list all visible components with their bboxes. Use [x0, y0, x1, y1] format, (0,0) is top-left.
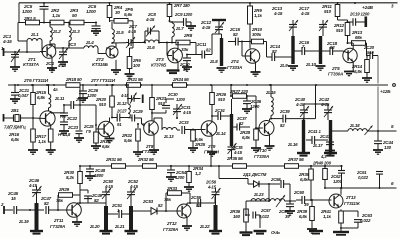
svg-text:4-15: 4-15 — [129, 184, 139, 189]
svg-text:2L23: 2L23 — [253, 192, 264, 197]
svg-text:2R40 200: 2R40 200 — [312, 161, 332, 166]
svg-text:ГТ330А: ГТ330А — [254, 154, 269, 159]
transformer 2L17 — [312, 120, 337, 156]
svg-text:2R35 56: 2R35 56 — [226, 156, 243, 161]
resistor 2R15 — [31, 84, 47, 108]
resistor 2R13 — [348, 30, 367, 56]
svg-text:910: 910 — [336, 28, 344, 33]
resistor 2R33 — [164, 186, 190, 211]
svg-text:4-15: 4-15 — [273, 11, 283, 16]
capacitor 2C18 — [318, 41, 343, 55]
svg-text:2В1: 2В1 — [10, 108, 19, 113]
svg-text:Г9: Г9 — [86, 129, 91, 134]
resistor 2R23 — [150, 85, 167, 121]
inductor 2L12 — [116, 84, 130, 118]
transformer 2L14 — [215, 84, 233, 146]
capacitor 2C50 4-15 — [102, 179, 114, 206]
svg-text:6,8к: 6,8к — [299, 214, 308, 219]
capacitor 2C56 4-15 — [205, 180, 221, 204]
svg-text:160: 160 — [233, 214, 241, 219]
svg-text:2L5: 2L5 — [115, 30, 124, 35]
svg-text:2С33: 2С33 — [178, 120, 189, 125]
resistor 2R20 — [95, 84, 114, 119]
svg-text:0,022: 0,022 — [259, 214, 270, 219]
resistor 2R2 — [50, 8, 64, 25]
node 1 input terminal — [1, 46, 12, 56]
svg-text:6,8к: 6,8к — [354, 69, 363, 74]
ground 2T9 emitter — [207, 135, 217, 156]
capacitor 2C7 4-15 — [126, 24, 137, 48]
svg-text:2R1 5: 2R1 5 — [23, 16, 36, 21]
svg-text:910: 910 — [324, 9, 332, 14]
inductor 2L1 — [27, 32, 43, 53]
resistor 2R31 — [105, 157, 126, 168]
capacitor 2C23 — [58, 122, 79, 137]
capacitor 2C61 — [356, 170, 383, 189]
svg-text:ГТ329А: ГТ329А — [50, 224, 65, 229]
wire 2T13 base — [311, 199, 332, 201]
capacitor 2C47 — [40, 196, 59, 214]
capacitor 2C36 — [242, 95, 262, 113]
ground 2T11 emitter — [72, 216, 82, 226]
wire to 2L18 — [332, 130, 348, 132]
transformer 2L8 — [209, 34, 223, 66]
ground 2T12 emitter — [182, 217, 192, 230]
capacitor 2C44 — [373, 131, 394, 154]
svg-text:4-15: 4-15 — [320, 102, 330, 107]
svg-text:2L3: 2L3 — [71, 29, 80, 34]
resistor 2R26 — [210, 85, 227, 116]
arrow 2L23 tuning — [276, 195, 285, 207]
svg-text:1200: 1200 — [250, 104, 260, 109]
svg-text:75к: 75к — [164, 197, 172, 202]
svg-text:30: 30 — [115, 10, 120, 15]
svg-text:2L8: 2L8 — [209, 59, 218, 64]
svg-text:910: 910 — [218, 97, 226, 102]
capacitor 2C29 — [128, 109, 145, 124]
resistor 2R35 — [226, 156, 247, 168]
resistor 2R6 — [125, 43, 142, 79]
resistor 2R37 — [285, 157, 305, 168]
svg-text:2R37 56: 2R37 56 — [287, 157, 304, 162]
svg-text:1,1к: 1,1к — [254, 13, 263, 18]
inductor 2L6 — [131, 40, 176, 50]
capacitor 2C10 and ground — [167, 55, 193, 74]
capacitor 2C54 — [166, 165, 187, 181]
svg-text:4-15: 4-15 — [207, 185, 217, 190]
svg-text:300к: 300к — [252, 32, 262, 37]
svg-text:2С23: 2С23 — [67, 125, 79, 130]
capacitor 2C28 trimmer — [120, 93, 144, 104]
wire input to 2T1 base — [12, 51, 40, 53]
capacitor 2C43 — [319, 130, 335, 159]
wire 2T11 collector — [77, 203, 88, 204]
wire 2R30 node — [79, 196, 81, 204]
resistor 2R24 — [172, 77, 189, 87]
wire 2T2 collector — [112, 42, 126, 47]
svg-text:100: 100 — [133, 63, 141, 68]
resistor 2R22 — [121, 123, 143, 156]
capacitor 2C31 4-15 — [173, 104, 192, 119]
arrow 2L18 tuning — [365, 126, 373, 136]
svg-text:2R33: 2R33 — [166, 186, 178, 191]
svg-text:4-15: 4-15 — [104, 184, 114, 189]
resistor 2R12 — [333, 20, 350, 44]
svg-text:2С34: 2С34 — [214, 108, 225, 113]
wire 2T6 base — [32, 108, 46, 130]
inductor 2L23 — [251, 192, 296, 202]
wire 2T10 collector — [270, 118, 305, 121]
svg-text:2L12: 2L12 — [116, 101, 127, 106]
wire output 5 — [367, 124, 396, 132]
resistor 2R36 — [229, 209, 253, 235]
ground top center — [212, 20, 226, 21]
ground 2T4 emitter — [251, 63, 261, 77]
resistor 2R11 — [321, 2, 340, 20]
svg-text:4,3: 4,3 — [320, 154, 327, 159]
svg-text:1200: 1200 — [176, 97, 186, 102]
svg-text:33к: 33к — [181, 47, 189, 52]
capacitor 2C15 — [228, 27, 250, 46]
svg-text:2С58: 2С58 — [270, 177, 281, 182]
transistor 2T11 GT329A — [50, 203, 81, 229]
svg-text:ГТ329А: ГТ329А — [163, 227, 178, 232]
inductor 2L15 — [265, 84, 276, 119]
ground 2T1 emitter — [47, 58, 57, 73]
svg-text:1,1к: 1,1к — [323, 214, 332, 219]
svg-text:2Т11: 2Т11 — [53, 218, 64, 223]
wire 2T7 collector — [109, 118, 111, 122]
svg-text:КТ370Б: КТ370Б — [151, 63, 167, 68]
capacitor 2C52 4-15 — [127, 179, 139, 206]
svg-text:82: 82 — [94, 198, 99, 203]
ground 2T2 emitter — [111, 60, 121, 74]
inductor 2L5 — [112, 22, 124, 43]
svg-text:+24В: +24В — [362, 5, 374, 11]
resistor 2R27 — [229, 85, 256, 98]
ground 2L8 — [217, 68, 227, 72]
wire +24V top bus — [19, 3, 398, 22]
svg-text:2Т6 ГТ311И: 2Т6 ГТ311И — [23, 78, 49, 83]
ground 2T8 emitter — [149, 134, 159, 154]
resistor 2R28 — [239, 127, 261, 152]
svg-text:0,022: 0,022 — [358, 175, 369, 180]
svg-text:2С19 1200: 2С19 1200 — [349, 12, 370, 17]
svg-text:8,2к: 8,2к — [66, 175, 75, 180]
svg-text:130: 130 — [384, 145, 392, 150]
svg-text:1200: 1200 — [22, 9, 32, 14]
capacitor 2C62 — [330, 165, 345, 189]
inductor 2L13 — [162, 128, 180, 140]
resistor 2R1 — [23, 16, 40, 25]
svg-text:4-15: 4-15 — [127, 29, 137, 34]
capacitor 2C35 4-15 — [228, 143, 244, 158]
svg-text:2С3: 2С3 — [67, 42, 76, 47]
resistor 2R7 — [167, 2, 190, 21]
ground bottom right — [333, 227, 349, 235]
svg-text:4-15: 4-15 — [233, 150, 243, 155]
svg-text:510: 510 — [367, 50, 374, 55]
transformer 2L9 — [279, 36, 298, 70]
svg-text:+12Б: +12Б — [380, 89, 391, 94]
capacitor 2C39 — [270, 109, 316, 128]
svg-text:1800: 1800 — [94, 173, 104, 178]
capacitor 2C22 — [51, 112, 78, 122]
resistor 2R16 — [8, 129, 38, 154]
capacitor 2C51 — [106, 203, 129, 218]
svg-text:2L7: 2L7 — [175, 26, 184, 31]
svg-text:0,047: 0,047 — [18, 93, 29, 98]
svg-text:2L22: 2L22 — [199, 224, 210, 229]
svg-text:2L6: 2L6 — [146, 45, 155, 50]
crystal 2B1 — [4, 108, 34, 122]
capacitor 2C5 — [22, 2, 49, 23]
resistor 2R40 — [312, 161, 332, 190]
svg-text:82: 82 — [233, 32, 238, 37]
transformer 2L16 — [287, 120, 310, 156]
ground 2T10 emitter — [265, 135, 275, 151]
wire detector feed — [218, 165, 254, 184]
wire 2T4 collector — [0, 0, 1, 1]
svg-text:2Т3: 2Т3 — [155, 57, 164, 62]
transistor 2T12 GT329A — [163, 204, 191, 232]
transformer 2L19 — [18, 203, 43, 234]
capacitor 2C41 — [306, 129, 328, 144]
capacitor 2C37 — [233, 116, 250, 131]
wire 2T8 collector — [154, 118, 162, 130]
svg-text:6,8к: 6,8к — [37, 95, 46, 100]
inductor 2L4 — [84, 40, 106, 54]
wire collector to 2L20 — [88, 203, 107, 211]
resistor 2R14 — [351, 55, 372, 83]
inductor 2L2 — [49, 22, 61, 47]
svg-text:2R21 56: 2R21 56 — [126, 77, 143, 82]
node 2 input terminal — [0, 202, 13, 214]
capacitor 2C27 — [112, 109, 128, 128]
resistor 2R21 — [126, 77, 143, 87]
svg-text:2С55: 2С55 — [190, 195, 202, 200]
svg-text:4-15: 4-15 — [28, 183, 38, 188]
diode 2D1 DKS7M — [254, 181, 281, 187]
label 2T7 — [90, 78, 116, 83]
wire to diode 2C53 — [130, 210, 151, 212]
svg-text:2С57: 2С57 — [260, 208, 271, 213]
resistor 2R8 — [172, 21, 196, 52]
svg-text:2L19: 2L19 — [18, 219, 29, 224]
ground bottom mid — [309, 228, 323, 234]
capacitor 2C40 4-15 — [294, 97, 309, 120]
svg-text:2С29: 2С29 — [132, 109, 143, 114]
capacitor 2C24 — [63, 85, 94, 142]
wire output 6 — [325, 181, 397, 195]
wire 2L22 top link — [197, 197, 215, 203]
svg-text:68к: 68к — [355, 35, 363, 40]
capacitor 2C49 — [80, 190, 103, 203]
inductor 2L3 — [68, 22, 80, 49]
inductor 2L7 — [171, 23, 184, 44]
svg-text:2С39: 2С39 — [279, 109, 290, 114]
capacitor 2C16 — [293, 40, 318, 55]
svg-text:4-15: 4-15 — [182, 110, 192, 115]
svg-text:2С22: 2С22 — [66, 116, 78, 121]
capacitor 2C26 — [78, 84, 99, 102]
wire 2T5 collector — [348, 43, 354, 49]
resistor 2R32 — [137, 157, 157, 168]
transistor 2T2 KT315B — [92, 46, 118, 67]
svg-text:2L14: 2L14 — [215, 131, 226, 136]
svg-text:НЧ: НЧ — [60, 114, 66, 119]
svg-text:ГТ311Ж: ГТ311Ж — [344, 201, 361, 206]
capacitor 2C34 — [212, 108, 232, 120]
capacitor 2C45 — [7, 191, 30, 214]
capacitor 2C42 4-15 — [318, 97, 333, 120]
svg-text:82: 82 — [272, 49, 277, 54]
svg-text:2L13: 2L13 — [163, 134, 174, 139]
transistor 2T9 GT311I — [185, 121, 220, 155]
resistor 2R19 — [91, 128, 110, 150]
capacitor 2C8 4-15 — [144, 12, 160, 44]
svg-text:2L16: 2L16 — [287, 142, 298, 147]
svg-text:2R7 180: 2R7 180 — [173, 3, 190, 8]
resistor 2R38 — [298, 165, 313, 201]
svg-text:2R29: 2R29 — [58, 187, 70, 192]
capacitor 2C48 — [85, 166, 106, 180]
label +24V — [354, 2, 394, 11]
svg-text:1,1к: 1,1к — [38, 139, 47, 144]
resistor 2R17 — [35, 126, 56, 154]
transformer 2L20 — [89, 206, 113, 234]
ground 2T5 emitter — [344, 62, 354, 76]
svg-text:2R24 56: 2R24 56 — [172, 77, 189, 82]
svg-text:2Т9: 2Т9 — [207, 144, 216, 149]
capacitor 2C59 — [278, 201, 295, 219]
svg-text:2L1: 2L1 — [30, 32, 39, 37]
resistor 2R4 — [107, 2, 122, 22]
resistor 2R18 — [65, 77, 82, 87]
transistor 2T4 GT333A — [227, 42, 260, 71]
svg-text:2R27 220: 2R27 220 — [229, 89, 249, 94]
wire input node — [29, 209, 44, 211]
capacitor 2C4 label — [45, 48, 84, 71]
svg-text:2Т5: 2Т5 — [331, 66, 340, 71]
svg-text:0,022: 0,022 — [360, 218, 371, 223]
svg-text:4-15: 4-15 — [300, 11, 310, 16]
svg-text:82: 82 — [44, 201, 49, 206]
capacitor 2C46 4-15 — [28, 178, 42, 203]
resistor 2R30 — [63, 166, 82, 196]
transistor 2T10 GT330A — [254, 96, 274, 159]
wire bus3 to bus2 — [210, 154, 212, 166]
transistor 2T7 GT311I row2 — [80, 105, 114, 137]
svg-text:2С43: 2С43 — [319, 134, 331, 139]
svg-text:15: 15 — [11, 196, 16, 201]
capacitor 2C14 — [267, 44, 294, 61]
svg-text:2С60: 2С60 — [293, 190, 305, 195]
capacitor 2C57 — [245, 208, 271, 234]
capacitor 2C63 — [341, 211, 373, 228]
resistor 2R5 — [110, 7, 134, 43]
svg-text:4а: 4а — [52, 87, 58, 92]
svg-text:2L2: 2L2 — [52, 29, 61, 34]
resistor 2R39 — [296, 200, 317, 233]
capacitor 2C3 4-15 — [57, 42, 76, 68]
transistor 2T1 KT337A — [23, 45, 56, 67]
svg-text:5,6к: 5,6к — [124, 138, 133, 143]
svg-text:2Д1 ДКС7М: 2Д1 ДКС7М — [242, 172, 267, 177]
wire 2T12 collector — [187, 202, 197, 205]
wire bus3 — [79, 165, 343, 167]
svg-text:2L18: 2L18 — [349, 123, 360, 128]
wire over 2L8 — [221, 34, 223, 38]
svg-text:4-15: 4-15 — [145, 17, 155, 22]
wire detector node — [246, 184, 270, 209]
svg-text:КТ337А: КТ337А — [23, 62, 40, 67]
diode 2C53 — [142, 199, 163, 215]
resistor 2R25 — [188, 129, 206, 153]
svg-text:1,1к: 1,1к — [52, 13, 61, 18]
svg-text:1200: 1200 — [86, 9, 96, 14]
capacitor 2C55 — [190, 195, 212, 208]
capacitor 2C17 4-15 — [298, 6, 328, 36]
svg-text:2L9: 2L9 — [279, 63, 288, 68]
capacitor 2C58b — [270, 177, 290, 201]
capacitor 2C11 — [186, 34, 212, 59]
capacitor 2C33 — [178, 120, 189, 134]
ground 2T7 emitter — [105, 136, 115, 143]
svg-text:2С9 1200: 2С9 1200 — [174, 12, 193, 17]
svg-text:6,8к: 6,8к — [300, 177, 309, 182]
svg-text:2R8: 2R8 — [183, 33, 193, 38]
wire stub — [0, 0, 1, 1]
transformer 2L10 — [305, 36, 326, 70]
svg-text:2L20: 2L20 — [89, 224, 100, 229]
svg-text:1200: 1200 — [175, 175, 185, 180]
svg-text:4-15: 4-15 — [201, 25, 211, 30]
capacitor 2C19 — [347, 12, 371, 28]
transistor 2T13 GT311Zh — [329, 194, 361, 208]
inductor 2L18 — [348, 123, 367, 131]
capacitor 2C21 — [10, 84, 30, 103]
transistor 2T5 GT330A — [328, 42, 357, 77]
svg-text:7,8(7,5)МГц: 7,8(7,5)МГц — [4, 125, 26, 130]
svg-text:24: 24 — [48, 66, 54, 71]
transistor 2T8 GT311I — [142, 121, 158, 154]
svg-text:6,8к: 6,8к — [102, 144, 110, 149]
svg-text:6,8к: 6,8к — [242, 135, 251, 140]
svg-text:2L4: 2L4 — [85, 40, 94, 45]
svg-text:2R18 50: 2R18 50 — [65, 77, 82, 82]
svg-text:2С11: 2С11 — [196, 42, 207, 47]
capacitor 2C12 4-15 — [200, 20, 224, 34]
wire bias row — [18, 22, 96, 42]
svg-text:2Т12: 2Т12 — [166, 221, 177, 226]
svg-text:4-15: 4-15 — [2, 39, 12, 44]
resistor 2R9 — [248, 2, 263, 49]
resistor 2R29 — [56, 187, 80, 210]
svg-text:2L21: 2L21 — [114, 224, 125, 229]
capacitor 2C6 — [86, 4, 101, 35]
label Och — [271, 230, 281, 235]
svg-text:2R31 56: 2R31 56 — [105, 157, 122, 162]
capacitor 2C9 — [169, 12, 197, 30]
wire 2T9 collector — [211, 115, 213, 122]
svg-text:1200: 1200 — [333, 179, 343, 184]
capacitor 2C20 — [363, 45, 378, 131]
label detector — [242, 172, 267, 177]
svg-text:2Т7 ГТ311И: 2Т7 ГТ311И — [90, 78, 116, 83]
transformer 2L21 — [114, 206, 138, 234]
svg-text:75к: 75к — [56, 198, 64, 203]
